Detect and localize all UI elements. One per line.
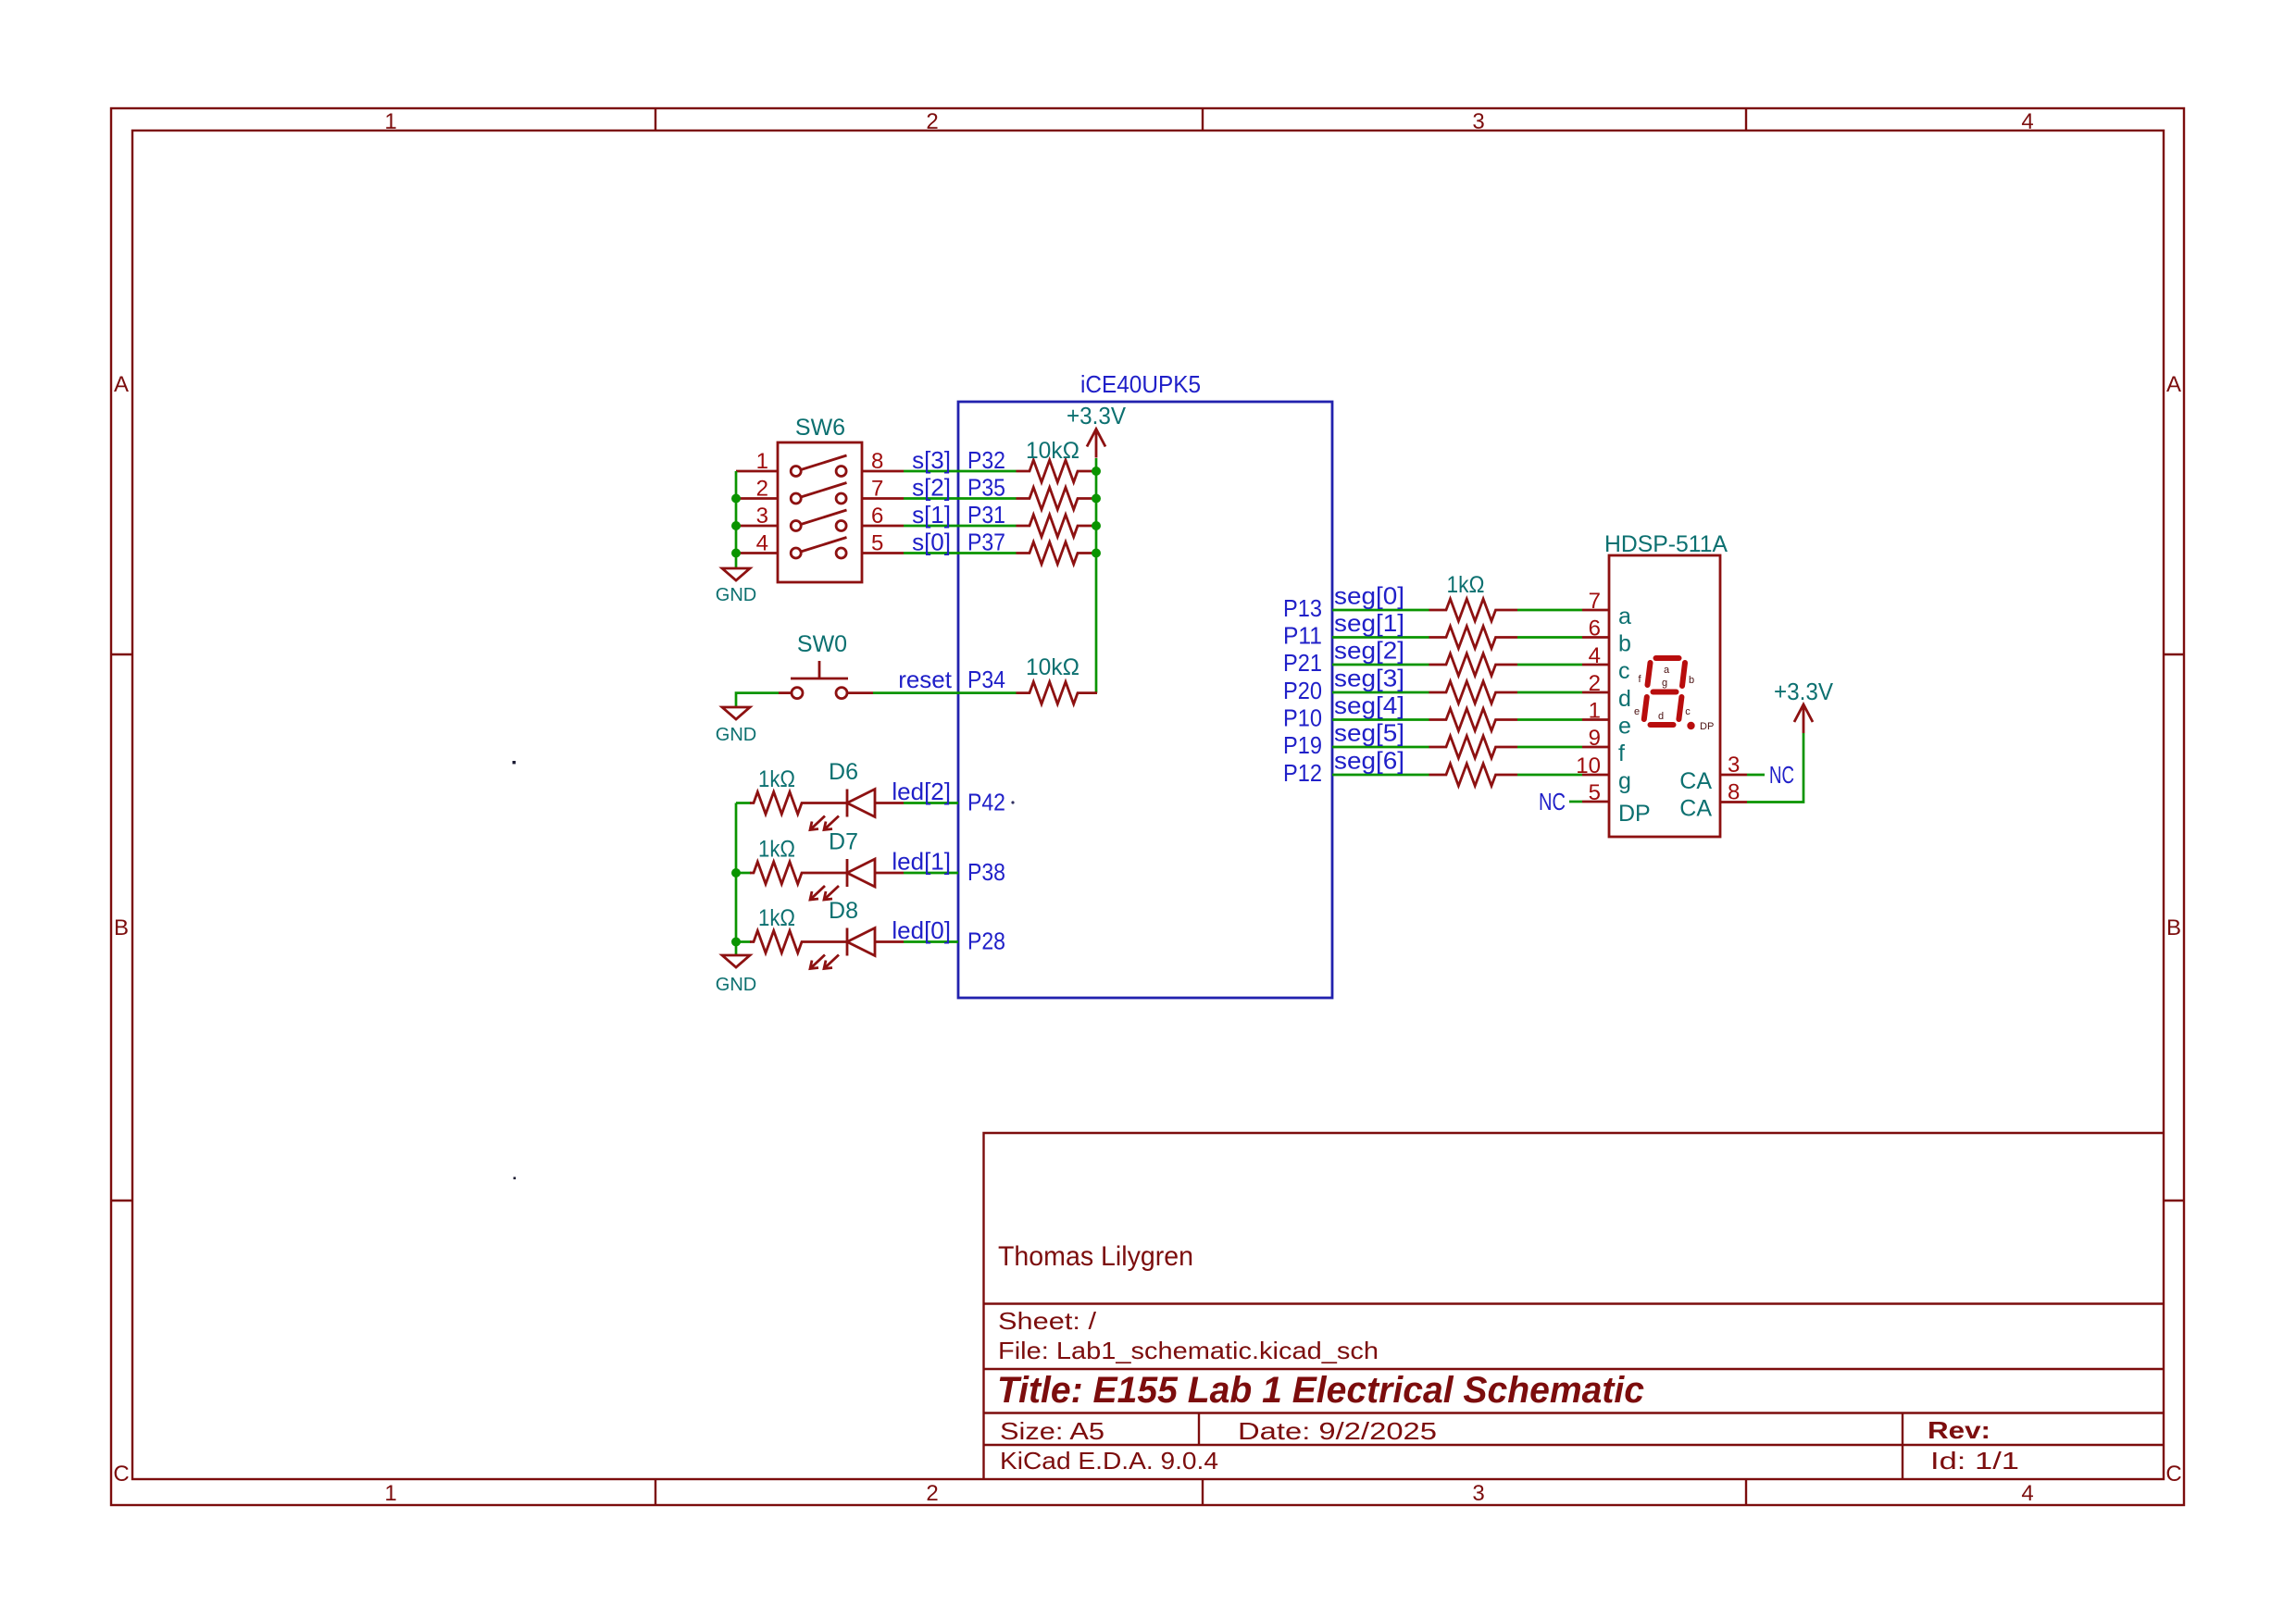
display seven-segment glyph bbox=[1644, 658, 1695, 729]
resistor 1k series for seg[5] bbox=[1429, 736, 1518, 758]
frame row labels left bbox=[113, 372, 129, 1487]
svg-text:P42: P42 bbox=[967, 789, 1005, 816]
svg-text:7: 7 bbox=[871, 477, 883, 502]
svg-text:iCE40UPK5: iCE40UPK5 bbox=[1080, 370, 1201, 398]
sheet frame inner border bbox=[132, 131, 2164, 1479]
led D7 bbox=[810, 859, 904, 900]
resistor 1k series for seg[4] bbox=[1429, 709, 1518, 731]
wire SW0 to GND2 bbox=[736, 693, 779, 706]
svg-text:GND: GND bbox=[716, 975, 756, 995]
svg-text:b: b bbox=[1689, 675, 1694, 686]
svg-text:GND: GND bbox=[716, 725, 756, 745]
resistor 1k series for D7 bbox=[750, 862, 824, 884]
stray dot artifact row C col 1 bbox=[514, 1177, 517, 1180]
svg-text:+3.3V: +3.3V bbox=[1774, 678, 1834, 705]
switch SW6 contacts and levers bbox=[791, 455, 846, 558]
svg-text:P32: P32 bbox=[967, 446, 1005, 474]
frame row ticks right bbox=[2164, 654, 2184, 1201]
svg-text:seg[0]: seg[0] bbox=[1334, 582, 1404, 610]
svg-text:Size: A5: Size: A5 bbox=[1000, 1417, 1104, 1445]
svg-text:led[2]: led[2] bbox=[892, 778, 951, 805]
svg-text:KiCad E.D.A. 9.0.4: KiCad E.D.A. 9.0.4 bbox=[1000, 1447, 1218, 1475]
wire seg[3] resistor to display pin bbox=[1517, 691, 1582, 694]
led D8 bbox=[810, 928, 904, 969]
svg-text:P38: P38 bbox=[967, 858, 1005, 886]
wire seg[2] resistor to display pin bbox=[1517, 664, 1582, 666]
svg-text:D6: D6 bbox=[829, 759, 858, 785]
svg-text:10kΩ: 10kΩ bbox=[1026, 438, 1079, 464]
wire net s[2] from SW6 to resistor bbox=[904, 497, 1017, 500]
display segment annotation letters bbox=[1634, 665, 1714, 732]
svg-text:A: A bbox=[2166, 372, 2181, 397]
svg-text:P13: P13 bbox=[1283, 594, 1322, 622]
svg-text:b: b bbox=[1618, 631, 1631, 657]
svg-text:CA: CA bbox=[1679, 796, 1712, 822]
svg-text:2: 2 bbox=[926, 1481, 938, 1506]
wire seg[5] resistor to display pin bbox=[1517, 746, 1582, 749]
junction LED D8 row bbox=[731, 938, 741, 947]
frame row labels right bbox=[2165, 372, 2181, 1487]
resistor 1k series for seg[0] bbox=[1429, 599, 1518, 621]
frame row ticks left bbox=[111, 654, 132, 1201]
svg-text:10kΩ: 10kΩ bbox=[1026, 654, 1079, 680]
switch SW6 pin numbers right 8-5 bbox=[871, 449, 883, 556]
display pin 4 stub bbox=[1582, 664, 1609, 666]
svg-text:P31: P31 bbox=[967, 501, 1005, 529]
stray dot artifact near P42 bbox=[1011, 801, 1014, 803]
svg-text:c: c bbox=[1685, 706, 1691, 717]
svg-text:+3.3V: +3.3V bbox=[1067, 402, 1127, 429]
resistor 1k series for seg[1] bbox=[1429, 627, 1518, 649]
svg-text:seg[6]: seg[6] bbox=[1334, 747, 1404, 775]
svg-text:C: C bbox=[2165, 1462, 2181, 1487]
display pin 6 stub bbox=[1582, 636, 1609, 639]
svg-text:g: g bbox=[1618, 768, 1631, 794]
power symbol +3.3V (pull-up rail) bbox=[1087, 429, 1105, 458]
wire NC to DP pin bbox=[1569, 801, 1582, 803]
svg-text:Title: E155 Lab 1 Electrical S: Title: E155 Lab 1 Electrical Schematic bbox=[997, 1370, 1644, 1411]
svg-text:4: 4 bbox=[756, 531, 768, 556]
wire net seg[5] from fpga to resistor bbox=[1332, 746, 1429, 749]
svg-text:seg[5]: seg[5] bbox=[1334, 719, 1404, 747]
svg-text:4: 4 bbox=[2021, 1481, 2033, 1506]
svg-text:Date: 9/2/2025: Date: 9/2/2025 bbox=[1238, 1417, 1437, 1445]
resistor 1k series for seg[2] bbox=[1429, 653, 1518, 676]
junction SW6 pin2 bbox=[731, 494, 741, 504]
svg-text:SW0: SW0 bbox=[797, 631, 847, 657]
svg-text:P35: P35 bbox=[967, 474, 1005, 502]
resistor 1k series for seg[3] bbox=[1429, 681, 1518, 703]
svg-text:GND: GND bbox=[716, 585, 756, 605]
svg-text:f: f bbox=[1618, 741, 1625, 766]
svg-text:HDSP-511A: HDSP-511A bbox=[1604, 531, 1728, 557]
switch SW0 push button bbox=[779, 661, 873, 699]
svg-text:8: 8 bbox=[871, 449, 883, 474]
wire +3.3V rail vertical to reset pull-up bbox=[1095, 458, 1098, 693]
svg-text:Thomas Lilygren: Thomas Lilygren bbox=[998, 1241, 1193, 1272]
svg-text:s[0]: s[0] bbox=[912, 529, 951, 556]
wire net led[2] from LED to fpga bbox=[904, 802, 958, 804]
svg-text:P11: P11 bbox=[1283, 622, 1322, 650]
svg-text:1kΩ: 1kΩ bbox=[758, 837, 795, 863]
svg-text:NC: NC bbox=[1539, 788, 1566, 815]
svg-text:seg[2]: seg[2] bbox=[1334, 637, 1404, 665]
svg-text:Id: 1/1: Id: 1/1 bbox=[1930, 1447, 2019, 1475]
junction pull-up s[0] at +3.3V rail bbox=[1092, 549, 1101, 558]
wire SW6 common vertical to GND bbox=[735, 471, 738, 568]
display pin 7 stub bbox=[1582, 609, 1609, 612]
svg-text:1kΩ: 1kΩ bbox=[758, 905, 795, 931]
wire net reset from SW0 to resistor bbox=[873, 691, 1017, 694]
svg-text:B: B bbox=[114, 915, 129, 940]
svg-text:1kΩ: 1kΩ bbox=[758, 766, 795, 792]
svg-text:led[0]: led[0] bbox=[892, 916, 951, 944]
wire seg[6] resistor to display pin bbox=[1517, 774, 1582, 777]
svg-text:a: a bbox=[1618, 604, 1631, 629]
junction pull-up s[3] at +3.3V rail bbox=[1092, 467, 1101, 476]
switch SW6 body bbox=[778, 442, 862, 582]
resistor 10k pull-up for s[3] bbox=[1017, 460, 1097, 482]
svg-text:4: 4 bbox=[2021, 109, 2033, 134]
junction pull-up s[2] at +3.3V rail bbox=[1092, 494, 1101, 504]
resistor 1k series for D6 bbox=[750, 792, 824, 815]
wire stub led[2] row at left rail bbox=[736, 802, 751, 804]
resistor 10k pull-up for reset bbox=[1017, 682, 1098, 704]
display pin 5 stub (DP) bbox=[1582, 801, 1609, 803]
svg-text:led[1]: led[1] bbox=[892, 848, 951, 876]
resistor 10k pull-up for s[2] bbox=[1017, 488, 1097, 510]
wire net s[0] from SW6 to resistor bbox=[904, 552, 1017, 554]
svg-text:P20: P20 bbox=[1283, 677, 1322, 704]
title block row lines bbox=[984, 1304, 2165, 1446]
svg-text:CA: CA bbox=[1679, 768, 1712, 794]
wire net seg[6] from fpga to resistor bbox=[1332, 774, 1429, 777]
svg-text:10: 10 bbox=[1576, 753, 1601, 778]
svg-text:e: e bbox=[1634, 706, 1640, 717]
svg-text:1: 1 bbox=[756, 449, 768, 474]
svg-text:Sheet: /: Sheet: / bbox=[998, 1307, 1097, 1335]
svg-text:P28: P28 bbox=[967, 927, 1005, 955]
svg-text:D8: D8 bbox=[829, 898, 858, 924]
wire net seg[3] from fpga to resistor bbox=[1332, 691, 1429, 694]
svg-text:C: C bbox=[113, 1462, 129, 1487]
wire LED common vertical to GND3 bbox=[735, 803, 738, 956]
display pin 3 stub bbox=[1720, 774, 1747, 777]
switch SW6 pins bbox=[736, 471, 904, 554]
title block column lines bbox=[1199, 1413, 1903, 1480]
wire seg[4] resistor to display pin bbox=[1517, 718, 1582, 721]
svg-text:1: 1 bbox=[384, 109, 396, 134]
svg-text:D7: D7 bbox=[829, 829, 858, 855]
svg-text:DP: DP bbox=[1700, 721, 1714, 732]
display pin 8 stub bbox=[1720, 801, 1747, 803]
switch SW6 pin numbers left 1-4 bbox=[756, 449, 768, 556]
wire net seg[4] from fpga to resistor bbox=[1332, 718, 1429, 721]
junction SW6 pin3 bbox=[731, 521, 741, 530]
svg-text:1: 1 bbox=[384, 1481, 396, 1506]
svg-text:2: 2 bbox=[926, 109, 938, 134]
svg-text:s[1]: s[1] bbox=[912, 501, 951, 529]
ground symbol GND3 below LEDs bbox=[722, 955, 750, 967]
svg-text:d: d bbox=[1658, 711, 1664, 722]
display pin 9 stub bbox=[1582, 746, 1609, 749]
svg-text:seg[4]: seg[4] bbox=[1334, 691, 1404, 719]
wire stub led[0] row at left rail bbox=[736, 940, 751, 943]
frame column ticks top bbox=[655, 108, 1746, 131]
display pin 2 stub bbox=[1582, 691, 1609, 694]
svg-text:File: Lab1_schematic.kicad_sch: File: Lab1_schematic.kicad_sch bbox=[998, 1337, 1379, 1364]
svg-text:NC: NC bbox=[1769, 761, 1794, 789]
display HDSP-511A body bbox=[1609, 555, 1720, 837]
svg-text:B: B bbox=[2166, 915, 2181, 940]
svg-text:3: 3 bbox=[756, 504, 768, 529]
svg-text:P21: P21 bbox=[1283, 649, 1322, 677]
ground symbol GND1 below SW6 bbox=[722, 568, 750, 580]
junction LED D7 row bbox=[731, 868, 741, 877]
sheet frame outer border bbox=[111, 108, 2184, 1505]
svg-text:2: 2 bbox=[1589, 671, 1601, 696]
resistor 1k series for seg[6] bbox=[1429, 764, 1518, 786]
resistor 10k pull-up for s[0] bbox=[1017, 542, 1097, 565]
svg-text:P19: P19 bbox=[1283, 731, 1322, 759]
svg-text:P12: P12 bbox=[1283, 759, 1322, 787]
display pin 10 stub bbox=[1582, 774, 1609, 777]
wire seg[1] resistor to display pin bbox=[1517, 636, 1582, 639]
svg-text:8: 8 bbox=[1728, 780, 1740, 805]
svg-text:3: 3 bbox=[1728, 753, 1740, 778]
led D6 bbox=[810, 790, 904, 830]
wire net s[1] from SW6 to resistor bbox=[904, 525, 1017, 528]
wire net seg[0] from fpga to resistor bbox=[1332, 609, 1429, 612]
svg-text:P10: P10 bbox=[1283, 704, 1322, 732]
svg-text:5: 5 bbox=[871, 531, 883, 556]
wire net led[0] from LED to fpga bbox=[904, 940, 958, 943]
svg-text:3: 3 bbox=[1472, 109, 1484, 134]
power symbol +3.3V (display anode) bbox=[1794, 704, 1813, 733]
svg-text:P37: P37 bbox=[967, 529, 1005, 556]
svg-text:3: 3 bbox=[1472, 1481, 1484, 1506]
resistor 10k pull-up for s[1] bbox=[1017, 515, 1097, 537]
wire net s[3] from SW6 to resistor bbox=[904, 470, 1017, 473]
junction pull-up s[1] at +3.3V rail bbox=[1092, 521, 1101, 530]
svg-text:a: a bbox=[1664, 665, 1670, 676]
stray dot artifact row B col 1 bbox=[513, 761, 516, 764]
display pin 1 stub bbox=[1582, 718, 1609, 721]
svg-text:1: 1 bbox=[1589, 699, 1601, 724]
frame column ticks bottom bbox=[655, 1479, 1746, 1505]
svg-text:6: 6 bbox=[871, 504, 883, 529]
wire pin3 to NC bbox=[1747, 774, 1765, 777]
wire stub led[1] row at left rail bbox=[736, 872, 751, 875]
svg-text:SW6: SW6 bbox=[795, 415, 845, 441]
junction SW6 pin4 bbox=[731, 549, 741, 558]
svg-text:g: g bbox=[1662, 678, 1667, 689]
title block border bbox=[984, 1133, 2165, 1479]
svg-text:P34: P34 bbox=[967, 666, 1005, 693]
ground symbol GND2 below SW0 bbox=[722, 707, 750, 719]
frame column labels bottom bbox=[384, 1481, 2033, 1506]
svg-text:c: c bbox=[1618, 658, 1630, 684]
svg-text:s[3]: s[3] bbox=[912, 446, 951, 474]
svg-text:A: A bbox=[114, 372, 129, 397]
svg-text:seg[3]: seg[3] bbox=[1334, 665, 1404, 692]
svg-text:d: d bbox=[1618, 686, 1631, 712]
resistor 1k series for D8 bbox=[750, 931, 824, 953]
svg-text:4: 4 bbox=[1589, 643, 1601, 668]
svg-text:reset: reset bbox=[898, 666, 953, 693]
svg-text:7: 7 bbox=[1589, 589, 1601, 614]
wire reset resistor corner to +3.3V rail bbox=[1096, 691, 1099, 694]
fpga block iCE40UPK5 body bbox=[958, 402, 1332, 998]
frame column labels top bbox=[384, 109, 2033, 134]
svg-text:DP: DP bbox=[1618, 801, 1651, 827]
wire seg[0] resistor to display pin bbox=[1517, 609, 1582, 612]
wire pin8 CA to +3.3V bbox=[1747, 733, 1803, 803]
wire net seg[1] from fpga to resistor bbox=[1332, 636, 1429, 639]
svg-text:e: e bbox=[1618, 714, 1631, 740]
svg-text:s[2]: s[2] bbox=[912, 474, 951, 502]
svg-text:9: 9 bbox=[1589, 726, 1601, 751]
svg-text:6: 6 bbox=[1589, 616, 1601, 641]
svg-text:Rev:: Rev: bbox=[1928, 1416, 1990, 1444]
svg-text:seg[1]: seg[1] bbox=[1334, 609, 1404, 637]
svg-text:2: 2 bbox=[756, 477, 768, 502]
wire net led[1] from LED to fpga bbox=[904, 872, 958, 875]
svg-text:5: 5 bbox=[1589, 780, 1601, 805]
svg-text:1kΩ: 1kΩ bbox=[1447, 572, 1485, 598]
wire net seg[2] from fpga to resistor bbox=[1332, 664, 1429, 666]
